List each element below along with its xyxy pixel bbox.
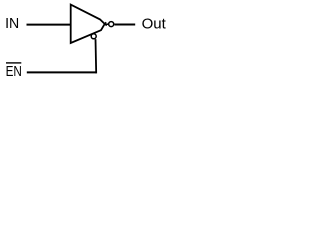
svg-text:EN: EN: [6, 63, 22, 80]
svg-text:Out: Out: [142, 15, 167, 32]
wire stub tip to output bubble: [105, 23, 109, 25]
EN overline: [6, 62, 21, 64]
enable bubble: [91, 34, 96, 39]
output inversion bubble: [109, 22, 114, 27]
tip overshoot marks: [105, 24, 107, 26]
wire output: [114, 24, 135, 26]
wire enable vertical: [95, 39, 98, 73]
tri-state inverter U1 triangle: [71, 5, 105, 43]
wire IN input: [27, 24, 71, 26]
wire enable horizontal: [27, 71, 97, 73]
svg-text:IN: IN: [5, 15, 19, 32]
